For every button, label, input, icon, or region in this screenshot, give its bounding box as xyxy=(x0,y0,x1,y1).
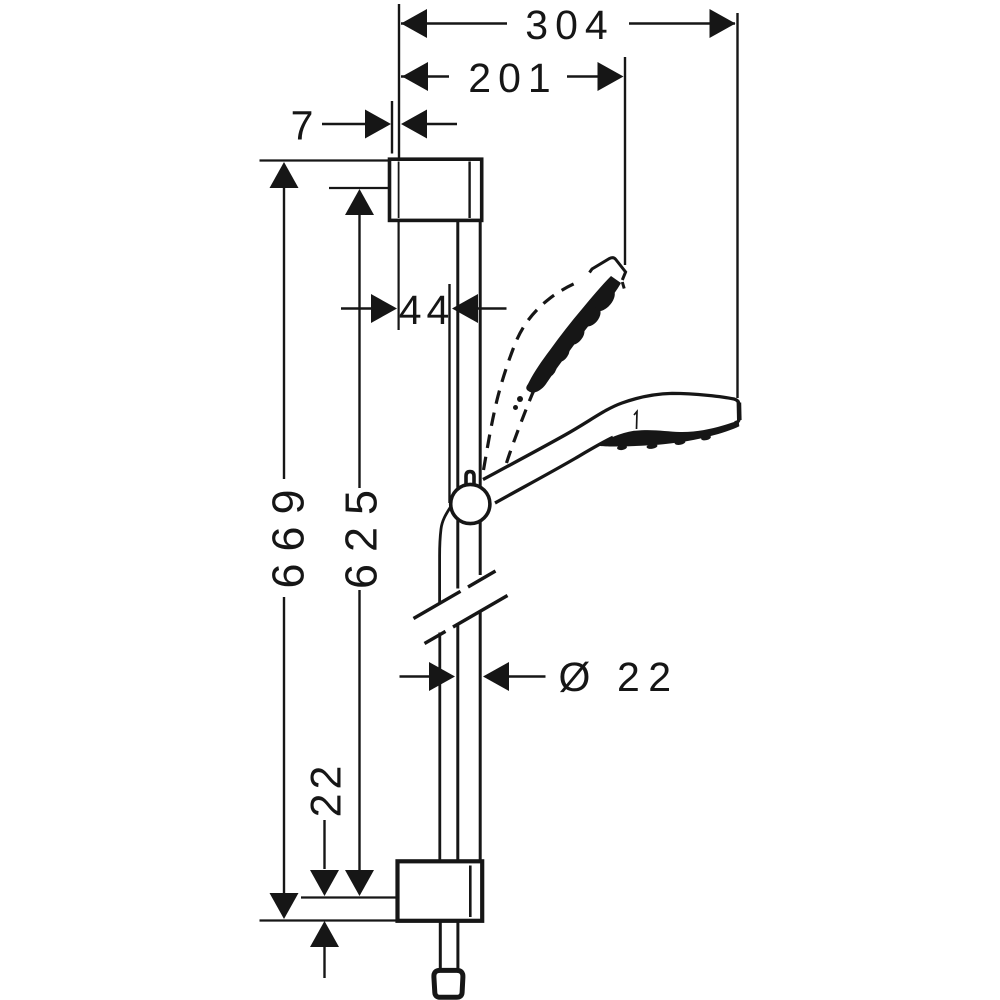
svg-text:44: 44 xyxy=(399,287,455,333)
extension line right for 304 xyxy=(736,13,738,398)
bottom bracket xyxy=(398,861,483,921)
extension line for 44 at slider left xyxy=(448,284,450,503)
solid head spray band xyxy=(598,421,739,447)
tick on head face xyxy=(634,412,637,430)
svg-text:7: 7 xyxy=(291,103,314,149)
line below top bracket (44 extension) xyxy=(398,221,400,330)
hose xyxy=(440,507,451,603)
slider nub xyxy=(466,472,474,486)
dim 7 arrows xyxy=(322,123,367,125)
svg-text:201: 201 xyxy=(468,55,557,101)
hose nut xyxy=(434,970,463,997)
dimension texts xyxy=(263,2,680,817)
extension line right for 201 xyxy=(624,57,626,265)
break line lower xyxy=(425,631,446,643)
dim 201 line xyxy=(401,75,449,77)
dashed head top outline xyxy=(590,258,626,280)
slider circle xyxy=(451,484,490,523)
ref line bottom 625 xyxy=(301,896,399,898)
svg-text:Ø: Ø xyxy=(559,654,591,700)
dashed head spray band xyxy=(526,276,621,393)
svg-text:669: 669 xyxy=(263,477,314,588)
wall reference vertical line x=399 xyxy=(398,4,400,158)
rail left edge xyxy=(456,221,459,589)
solid head right edge thick xyxy=(737,403,742,421)
dim 22 vertical xyxy=(323,820,325,869)
hose below bottom bracket xyxy=(439,921,442,970)
svg-text:625: 625 xyxy=(336,478,387,589)
ref line top 625 xyxy=(329,187,390,189)
break line upper xyxy=(414,591,461,618)
dim dia22 arrows xyxy=(400,675,432,677)
dim 44 arrows xyxy=(341,307,373,309)
solid handle bottom edge xyxy=(495,437,613,503)
top bracket xyxy=(390,159,482,220)
svg-text:22: 22 xyxy=(303,762,351,818)
solid handle top edge merging into head back outline xyxy=(483,393,739,479)
svg-text:304: 304 xyxy=(525,2,614,48)
ref line top 669 xyxy=(260,159,391,161)
ref line bottom 669 xyxy=(260,919,400,921)
rail right edge xyxy=(479,221,482,576)
dashed hand shower handle left curve xyxy=(484,282,579,470)
dim 669 vertical xyxy=(283,187,285,479)
dashed hand shower handle right curve xyxy=(507,343,559,463)
bracket edge extension line x=392 xyxy=(391,101,393,154)
dim 625 vertical xyxy=(358,214,360,488)
svg-text:22: 22 xyxy=(617,654,680,700)
dim 304 line xyxy=(401,22,507,24)
